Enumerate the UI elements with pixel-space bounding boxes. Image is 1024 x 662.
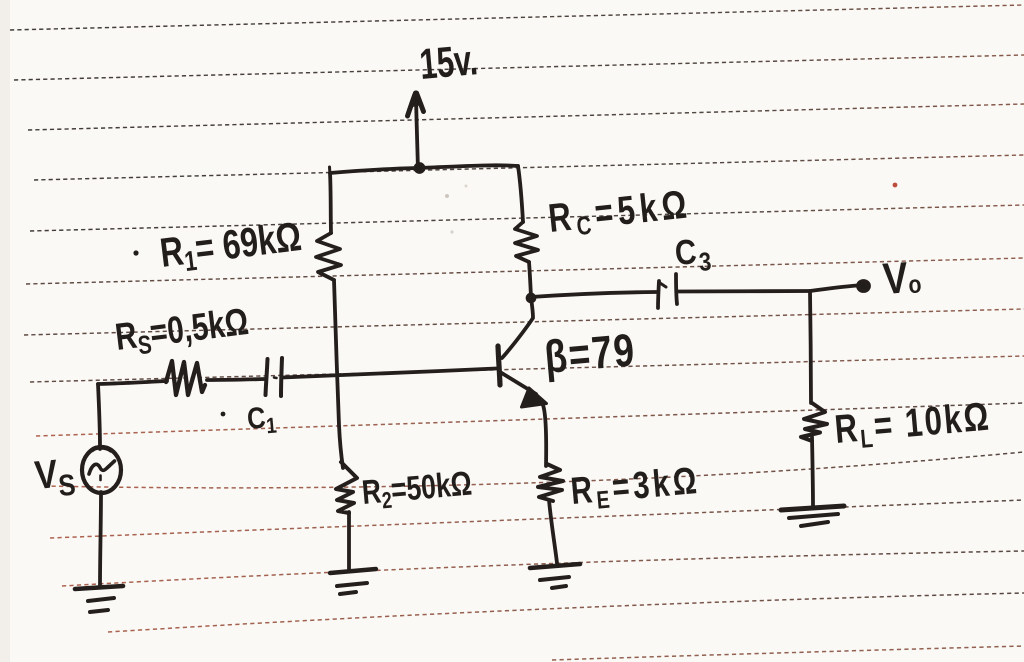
wire: RE to ground	[549, 500, 557, 563]
terminal Vo	[858, 281, 869, 291]
wire: output junction to RL	[810, 291, 811, 403]
ground (R2)	[330, 569, 376, 573]
power supply 15V arrow	[416, 97, 418, 170]
resistor Rs	[166, 361, 205, 395]
source Vs (circle)	[82, 447, 121, 493]
resistor RL	[801, 403, 827, 441]
ground (Vs)	[75, 586, 123, 589]
ground (RE)	[530, 564, 580, 568]
wire: Vs to ground	[100, 492, 101, 586]
wire: collector node to C3	[531, 292, 656, 297]
label: RE = 3k ohm	[569, 459, 702, 516]
label: R1 = 69k ohm	[133, 250, 138, 255]
wire: top rail from R1 branch to Rc branch	[330, 165, 518, 173]
capacitor C1	[266, 359, 268, 395]
wire: emitter to RE	[543, 405, 546, 466]
red speck	[893, 183, 898, 188]
transistor Q1: base bar	[498, 346, 500, 385]
wire: corner down to Vs	[98, 384, 100, 449]
wire: R1 to R2 vertical	[334, 280, 343, 468]
wire: Rc branch vertical (top rail to Rc)	[518, 166, 523, 222]
resistor R2	[336, 462, 357, 513]
wire: base wire (C1 to base)	[282, 369, 496, 378]
label: 15v	[418, 35, 480, 88]
wire: source corner to Rs	[98, 381, 167, 384]
wire: C3 to output junction	[677, 289, 810, 293]
transistor Q1: emitter arrow	[522, 388, 547, 407]
node: supply junction dot	[415, 163, 424, 172]
resistor Rc	[515, 222, 538, 262]
svg-text:15v.: 15v.	[418, 35, 480, 88]
ground (RL)	[781, 506, 844, 510]
label: C3	[673, 231, 714, 280]
node: collector junction dot	[526, 293, 535, 302]
wire: R2 to ground	[347, 512, 351, 570]
transistor Q1: emitter lead	[500, 372, 536, 394]
wire: R1 branch vertical (top rail to R1)	[330, 173, 331, 233]
label: Vs	[33, 449, 77, 504]
capacitor C3	[658, 281, 659, 308]
label: Rs = 0,5k ohm	[113, 301, 251, 363]
label: Rc = 5k ohm	[546, 182, 693, 244]
wire: Rs to C1	[207, 379, 266, 380]
label: beta = 79	[542, 323, 637, 383]
label: R2 = 50k ohm	[360, 464, 473, 515]
resistor R1	[316, 233, 341, 280]
label: Vo	[881, 252, 922, 304]
label: RL = 10k ohm	[833, 394, 993, 456]
label: C1	[221, 412, 226, 417]
wire: Rc to collector node	[529, 262, 531, 297]
wire: RL to ground	[812, 437, 813, 507]
pencil smudges	[445, 194, 449, 198]
wire: output junction to Vo terminal	[810, 286, 857, 292]
transistor Q1: collector lead	[502, 298, 533, 358]
resistor RE	[538, 464, 563, 501]
svg-text:β=79: β=79	[542, 323, 637, 383]
